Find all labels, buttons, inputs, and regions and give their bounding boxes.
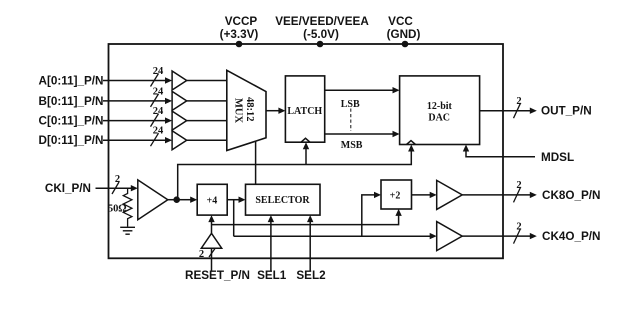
bus slash 2 CK8O [514, 180, 522, 202]
wire buffer C to MUX [187, 120, 227, 122]
dashed separator LSB/MSB [350, 109, 352, 132]
svg-text:(+3.3V): (+3.3V) [220, 28, 259, 41]
svg-text:2: 2 [199, 249, 204, 260]
wire branch up to +2 input [362, 192, 381, 237]
wire latch clock branch [305, 147, 307, 165]
divider U4 +4 [197, 184, 227, 215]
wire input B [103, 98, 172, 104]
svg-text:DAC: DAC [428, 113, 450, 124]
bus slash 2 OUT [514, 96, 522, 118]
svg-text:2: 2 [115, 174, 120, 185]
wire input C [103, 117, 172, 123]
ground [120, 227, 135, 234]
wire +2 to CK8O buffer [412, 192, 437, 198]
bus slash 24 B [151, 86, 165, 107]
wire OUT_P/N [480, 108, 537, 114]
svg-text:2: 2 [516, 96, 521, 107]
bus slash 2 RESET [199, 249, 215, 261]
wire buffer D to MUX [187, 139, 227, 141]
buffer CK8O [437, 180, 463, 209]
buffer B [172, 91, 187, 110]
svg-text:LATCH: LATCH [287, 106, 322, 117]
bus slash 2 CK4O [514, 221, 522, 243]
wire CK8O_P/N [462, 192, 537, 198]
svg-text:(-5.0V): (-5.0V) [303, 28, 339, 41]
wire input A [103, 77, 172, 83]
svg-text:MUX: MUX [232, 98, 243, 123]
svg-text:MSB: MSB [341, 140, 363, 151]
svg-text:+2: +2 [390, 191, 401, 202]
svg-text:VCC: VCC [388, 15, 413, 28]
wire MUX to SELECTOR [255, 141, 257, 184]
svg-text:LSB: LSB [341, 99, 360, 110]
wire reset to +4 [208, 215, 214, 233]
dac U3 12-bit DAC [400, 76, 480, 145]
bus slash 24 D [151, 126, 165, 147]
wire MSB latch to DAC [325, 131, 400, 137]
buffer A [172, 71, 187, 90]
wire +4 branch down to CK4O feed [233, 200, 235, 237]
buffer D [172, 131, 187, 150]
wire RESET_P/N input [211, 248, 213, 270]
wire +4 to SELECTOR [227, 197, 245, 203]
svg-text:MDSL: MDSL [541, 151, 574, 164]
wire MDSL [463, 145, 535, 157]
svg-text:12-bit: 12-bit [427, 101, 453, 112]
svg-text:D[0:11]_P/N: D[0:11]_P/N [39, 134, 104, 147]
pin VCCP (+3.3V) [220, 15, 259, 47]
wire input CKI [96, 185, 138, 191]
wire SEL2 [307, 215, 313, 270]
divider U6 +2 [381, 180, 412, 209]
pin VCC (GND) [387, 15, 421, 47]
svg-text:VCCP: VCCP [225, 15, 258, 28]
node clock (junction dot) [173, 196, 180, 203]
chip outline [109, 44, 504, 258]
buffer CKI [138, 180, 168, 220]
svg-text:50Ω: 50Ω [108, 203, 127, 214]
svg-text:24: 24 [153, 86, 164, 97]
svg-text:SEL2: SEL2 [296, 269, 326, 282]
svg-text:VEE/VEED/VEEA: VEE/VEED/VEEA [275, 15, 369, 28]
svg-text:SELECTOR: SELECTOR [255, 195, 310, 206]
buffer C [172, 111, 187, 130]
arrow DAC clock [408, 145, 414, 152]
dac clock wedge [407, 141, 416, 145]
svg-text:24: 24 [153, 126, 164, 137]
selector U5 SELECTOR [246, 184, 321, 215]
wire LSB latch to DAC [325, 87, 400, 93]
wire SEL1 [268, 215, 274, 270]
wire node to divider +4 [177, 197, 198, 203]
svg-text:24: 24 [153, 66, 164, 77]
svg-text:CK4O_P/N: CK4O_P/N [542, 230, 600, 243]
reset buffer [201, 233, 221, 248]
bus slash 24 A [151, 66, 165, 87]
pin VEE/VEED/VEEA (-5.0V) [275, 15, 369, 47]
svg-text:SEL1: SEL1 [257, 269, 287, 282]
svg-text:RESET_P/N: RESET_P/N [185, 269, 250, 282]
wire CK4O feed line [234, 233, 437, 239]
bus slash 2 CKI [112, 174, 120, 194]
latch U2 LATCH [285, 76, 324, 142]
svg-text:(GND): (GND) [387, 28, 421, 41]
wire reset branch to +2 [212, 209, 402, 225]
svg-text:A[0:11]_P/N: A[0:11]_P/N [39, 75, 104, 88]
svg-text:48:12: 48:12 [244, 97, 255, 122]
wire buffer to node [168, 199, 177, 201]
svg-text:B[0:11]_P/N: B[0:11]_P/N [39, 95, 104, 108]
svg-text:2: 2 [516, 180, 521, 191]
wire CK4O_P/N [462, 233, 537, 239]
resistor R1 50ohm [108, 188, 132, 227]
svg-text:OUT_P/N: OUT_P/N [541, 105, 592, 118]
arrow LATCH clock [303, 142, 309, 149]
mux U1 48:12 MUX [227, 70, 266, 150]
wire clock distribution to LATCH and DAC [178, 149, 412, 200]
latch clock wedge [301, 138, 310, 142]
svg-text:C[0:11]_P/N: C[0:11]_P/N [39, 115, 104, 128]
svg-text:CK8O_P/N: CK8O_P/N [542, 189, 600, 202]
svg-text:CKI_P/N: CKI_P/N [45, 182, 91, 195]
buffer CK4O [437, 222, 463, 251]
svg-text:+4: +4 [207, 196, 218, 207]
wire buffer A to MUX [187, 80, 227, 82]
svg-text:2: 2 [516, 221, 521, 232]
wire MUX to LATCH [266, 108, 285, 114]
bus slash 24 C [151, 106, 165, 127]
svg-text:24: 24 [153, 106, 164, 117]
wire input D [103, 137, 172, 143]
wire buffer B to MUX [187, 100, 227, 102]
